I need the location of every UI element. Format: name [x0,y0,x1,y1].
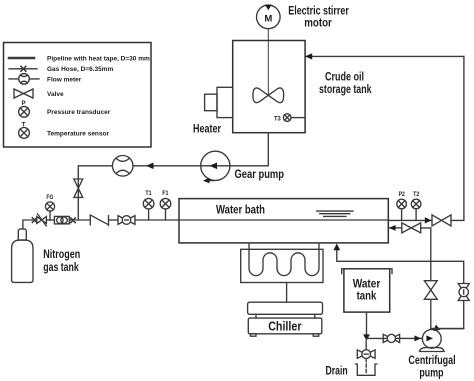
stirrer shaft wire [267,29,269,96]
wire main line through bath [179,219,388,221]
svg-text:Flow meter: Flow meter [47,76,82,83]
impeller [253,88,284,103]
wire to water bath [135,219,179,221]
crude oil storage tank [233,41,305,133]
flow meter FM1 [112,156,133,177]
legend gas hose sample [9,68,37,70]
motor U1 circle [257,5,281,29]
wire chiller return to bath (up arrow) [337,247,464,284]
pump base [420,348,445,352]
svg-text:FG: FG [46,194,53,201]
gas hose X mark 1 [32,218,36,223]
water bath vessel [179,199,388,243]
legend box [4,43,152,148]
motor top arrow [265,5,272,11]
svg-text:gas tank: gas tank [43,260,79,274]
wire through gear pump [201,165,230,167]
svg-text:M: M [264,13,272,24]
arrow right [425,217,432,223]
svg-text:T3: T3 [274,115,281,122]
svg-text:T1: T1 [145,190,152,197]
svg-text:Water bath: Water bath [216,202,265,216]
svg-text:F1: F1 [162,190,169,197]
svg-text:T2: T2 [413,191,420,198]
chiller ticks [256,314,315,318]
drain branch wire [365,341,367,350]
wire top return to tank [305,55,464,57]
svg-text:Heater: Heater [193,121,221,135]
wire bath outlet right [388,219,432,221]
gas flow controller box [54,216,69,224]
chiller coil [249,243,319,275]
bath inlet valve [402,223,421,233]
gear pump arrow [210,163,218,170]
centrifugal pump [422,329,441,348]
svg-text:tank: tank [357,288,377,302]
wire T3 to tank wall [291,117,305,119]
pressure regulator valve [37,217,47,224]
valve V1 vertical [74,179,83,197]
wire gear pump to flow meter [133,165,201,167]
svg-text:Gear pump: Gear pump [235,167,285,181]
chiller body [248,318,321,334]
wire nitrogen tank to main line [23,220,33,229]
svg-text:Nitrogen: Nitrogen [43,247,80,261]
chiller coil vessel [241,249,323,282]
globe valve N2 line [118,216,135,225]
wire bath water inlet line [389,227,402,229]
wire [109,219,119,221]
wire valve to right riser [451,56,464,220]
wire flow meter to corner and down [78,166,112,220]
drain globe valve [357,350,375,358]
wire [69,219,71,221]
arrow into tank [305,53,312,59]
wire junction to pump [367,337,427,339]
riser valve vertical [424,281,437,300]
pump branch wire [431,328,464,330]
wire [46,219,54,221]
arrow on wire [146,163,154,170]
legend flow meter sample [9,78,39,80]
wire water tank outlet [366,312,368,335]
check valve [90,215,108,226]
drain dashed wire [365,359,367,375]
pump discharge arrow [433,325,440,331]
svg-text:P2: P2 [399,191,406,198]
svg-text:pump: pump [419,366,443,380]
drain container [356,364,377,375]
chiller feet [251,334,257,336]
water line globe valve [383,334,399,342]
water level symbol [317,211,353,216]
gear pump rotation arrow [205,180,214,182]
legend pipeline sample [9,57,34,60]
svg-text:Drain: Drain [326,363,348,377]
wire coil box to chiller [286,283,288,303]
chiller top box [248,302,323,314]
svg-text:Pipeline with heat tape, D=30: Pipeline with heat tape, D=30 mm [47,55,150,62]
arrow left into bath [389,225,396,231]
svg-text:motor: motor [304,16,332,30]
globe valve right riser [458,284,469,301]
heater block [217,87,233,117]
svg-text:Pressure transducer: Pressure transducer [47,109,111,116]
svg-text:Temperature sensor: Temperature sensor [47,130,109,137]
nitrogen gas tank [18,229,26,240]
bath outlet valve [432,215,451,226]
gas hose X mark 2 [71,218,75,223]
svg-text:Gas Hose, D=6.35mm: Gas Hose, D=6.35mm [47,66,114,73]
legend valve sample [14,89,33,98]
svg-text:Chiller: Chiller [268,319,301,334]
wire riser down to pump branch [431,301,464,329]
svg-text:Valve: Valve [47,91,64,98]
gear pump circle [201,151,230,180]
node junction main line [75,219,90,221]
arrow into pump [414,335,421,341]
wire valve to riser down [421,228,431,330]
svg-text:storage tank: storage tank [319,82,372,96]
junction arrow down [363,334,370,340]
water tank [344,269,390,312]
wire tank bottom to gear pump line [230,133,268,166]
